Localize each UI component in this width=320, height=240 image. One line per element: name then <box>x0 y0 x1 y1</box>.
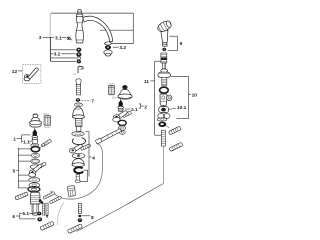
svg-text:8: 8 <box>91 215 94 221</box>
diverter body <box>160 94 172 106</box>
svg-text:3.1: 3.1 <box>55 35 62 41</box>
escutcheon wedge upper right <box>168 126 181 135</box>
diagonal screw upper <box>43 191 55 199</box>
svg-text:6: 6 <box>12 214 15 220</box>
washer ring <box>75 103 83 107</box>
svg-text:19mm: 19mm <box>112 96 119 99</box>
washer 1b <box>31 159 40 164</box>
svg-text:4: 4 <box>92 155 95 161</box>
open c-ring in stack 4 <box>72 138 85 145</box>
label 3.2 left <box>53 51 61 57</box>
dome handle 1 <box>30 114 42 127</box>
svg-text:1: 1 <box>13 137 16 143</box>
small ring below handle 2 <box>119 131 125 135</box>
svg-text:3: 3 <box>39 35 42 41</box>
black o-ring seal <box>158 122 169 128</box>
svg-text:1.5mm: 1.5mm <box>107 83 114 86</box>
svg-text:11: 11 <box>144 79 149 85</box>
lever handle 2 <box>113 111 128 122</box>
ring 5b <box>29 183 40 188</box>
handshower head part 9 <box>156 19 173 46</box>
adapter canister near handle 2 <box>109 85 115 95</box>
escutcheon wedge in stack 4 <box>80 144 90 151</box>
oval washer in stack 4 <box>72 132 84 137</box>
svg-text:2: 2 <box>144 104 147 110</box>
label 8 with leader <box>82 215 94 221</box>
bell escutcheon <box>72 107 84 119</box>
label 3.2 right <box>113 45 127 51</box>
box for part 12 <box>23 65 41 84</box>
shank end piece <box>75 175 80 183</box>
dome handle 2 <box>118 85 132 99</box>
hose coupling collar <box>161 53 167 63</box>
dome flange <box>158 69 171 77</box>
ring 5a <box>29 178 40 183</box>
label 1 with bracket <box>13 135 31 146</box>
lever handle 5 <box>29 164 42 177</box>
svg-text:2.1: 2.1 <box>131 107 138 113</box>
svg-text:1.1: 1.1 <box>23 139 30 145</box>
diagonal screw lower <box>49 196 61 204</box>
escutcheon wedge bottom left <box>40 221 54 230</box>
washer pair <box>158 113 170 118</box>
washer dot part 8 <box>78 215 81 217</box>
valve body part 6 <box>30 192 40 215</box>
seal dot part 6.1 <box>37 212 41 216</box>
bold o-ring 1 <box>31 147 39 152</box>
bracket and label 9 <box>168 36 183 51</box>
o-ring stack under spout base <box>77 48 82 63</box>
threaded stud <box>161 130 165 146</box>
svg-text:10: 10 <box>192 93 198 99</box>
svg-text:6.1: 6.1 <box>22 211 29 217</box>
threaded stem <box>162 77 167 86</box>
supply hose A <box>77 184 164 232</box>
svg-text:3.2: 3.2 <box>54 51 61 57</box>
aerator insert <box>67 186 75 197</box>
screw part 3.1 <box>67 37 72 40</box>
screw washer dots <box>39 199 43 203</box>
leader to screw <box>40 145 43 147</box>
bold washer atop valve <box>28 187 40 192</box>
bracket and label 5 <box>13 148 31 189</box>
deck reference box <box>50 13 133 61</box>
diagonal screw near cartridge 1 <box>41 139 52 147</box>
twin mounting studs <box>43 203 48 217</box>
svg-text:22mm: 22mm <box>67 198 74 201</box>
svg-text:17mm: 17mm <box>43 113 50 116</box>
escutcheon wedge at handle 2 <box>122 111 131 118</box>
bracket and label 4 <box>80 132 95 182</box>
svg-text:19mm: 19mm <box>44 126 51 129</box>
bracket and label 10 <box>171 76 197 118</box>
spout outlet rings part 3.2 <box>104 42 112 56</box>
escutcheon wedge lower right <box>169 142 183 151</box>
ring below handle 2 <box>119 126 126 131</box>
hose B from connection tube <box>50 143 102 199</box>
supply rod line <box>162 146 164 184</box>
label 10.1 <box>169 105 187 111</box>
seal ring below 6.1 <box>37 217 42 221</box>
escutcheon wedge bottom center <box>67 224 82 234</box>
dome flange in stack 4 <box>72 159 84 167</box>
stem tube part 11 <box>163 63 166 69</box>
bold o-ring <box>160 87 169 93</box>
spout assembly part 3 <box>76 9 113 43</box>
label 7 with dotted leader <box>82 99 95 105</box>
o-ring part 7 <box>76 98 81 102</box>
center column cap <box>76 79 81 85</box>
cartridge 1 <box>31 128 39 147</box>
svg-text:3.2: 3.2 <box>119 45 126 51</box>
retaining clip <box>78 66 83 73</box>
label 3 with leader <box>39 35 66 41</box>
label 2.1 <box>125 107 138 113</box>
lever handle part 12 <box>24 68 38 81</box>
flange ring below handle 2 <box>118 120 126 125</box>
stud part 8 <box>78 203 81 213</box>
threaded shank <box>75 119 82 132</box>
label 6 with bracket <box>12 211 35 220</box>
big ring behind lever 5 <box>30 165 40 169</box>
hub ring in stack 4 <box>72 153 85 158</box>
center column threaded stem <box>76 85 80 95</box>
angled connection tube <box>95 129 121 144</box>
bracket and label 11 <box>144 61 162 135</box>
faint hose arc C <box>58 203 64 226</box>
black c-seal in stack 4 <box>74 167 83 173</box>
hose washer dot below handshower <box>163 48 167 51</box>
label 12 <box>12 69 23 75</box>
svg-text:7: 7 <box>91 99 94 105</box>
lever cam in stack 4 <box>69 144 82 153</box>
washer 1a <box>31 153 39 157</box>
mounting nut part 10.1 <box>159 107 169 113</box>
adapter canister 1 <box>44 116 51 126</box>
escutcheon wedge left <box>15 192 28 200</box>
escutcheon wedge at lever 5 <box>37 162 47 169</box>
svg-text:10.1: 10.1 <box>177 105 187 111</box>
bracket for part 3 <box>51 37 76 61</box>
black ring part 8 <box>78 218 82 222</box>
bracket and label 2 <box>139 104 148 111</box>
svg-text:5: 5 <box>13 169 16 175</box>
svg-text:12: 12 <box>12 69 18 75</box>
svg-text:9: 9 <box>180 41 183 47</box>
flat washer <box>157 118 167 121</box>
cartridge 2 <box>118 99 124 112</box>
